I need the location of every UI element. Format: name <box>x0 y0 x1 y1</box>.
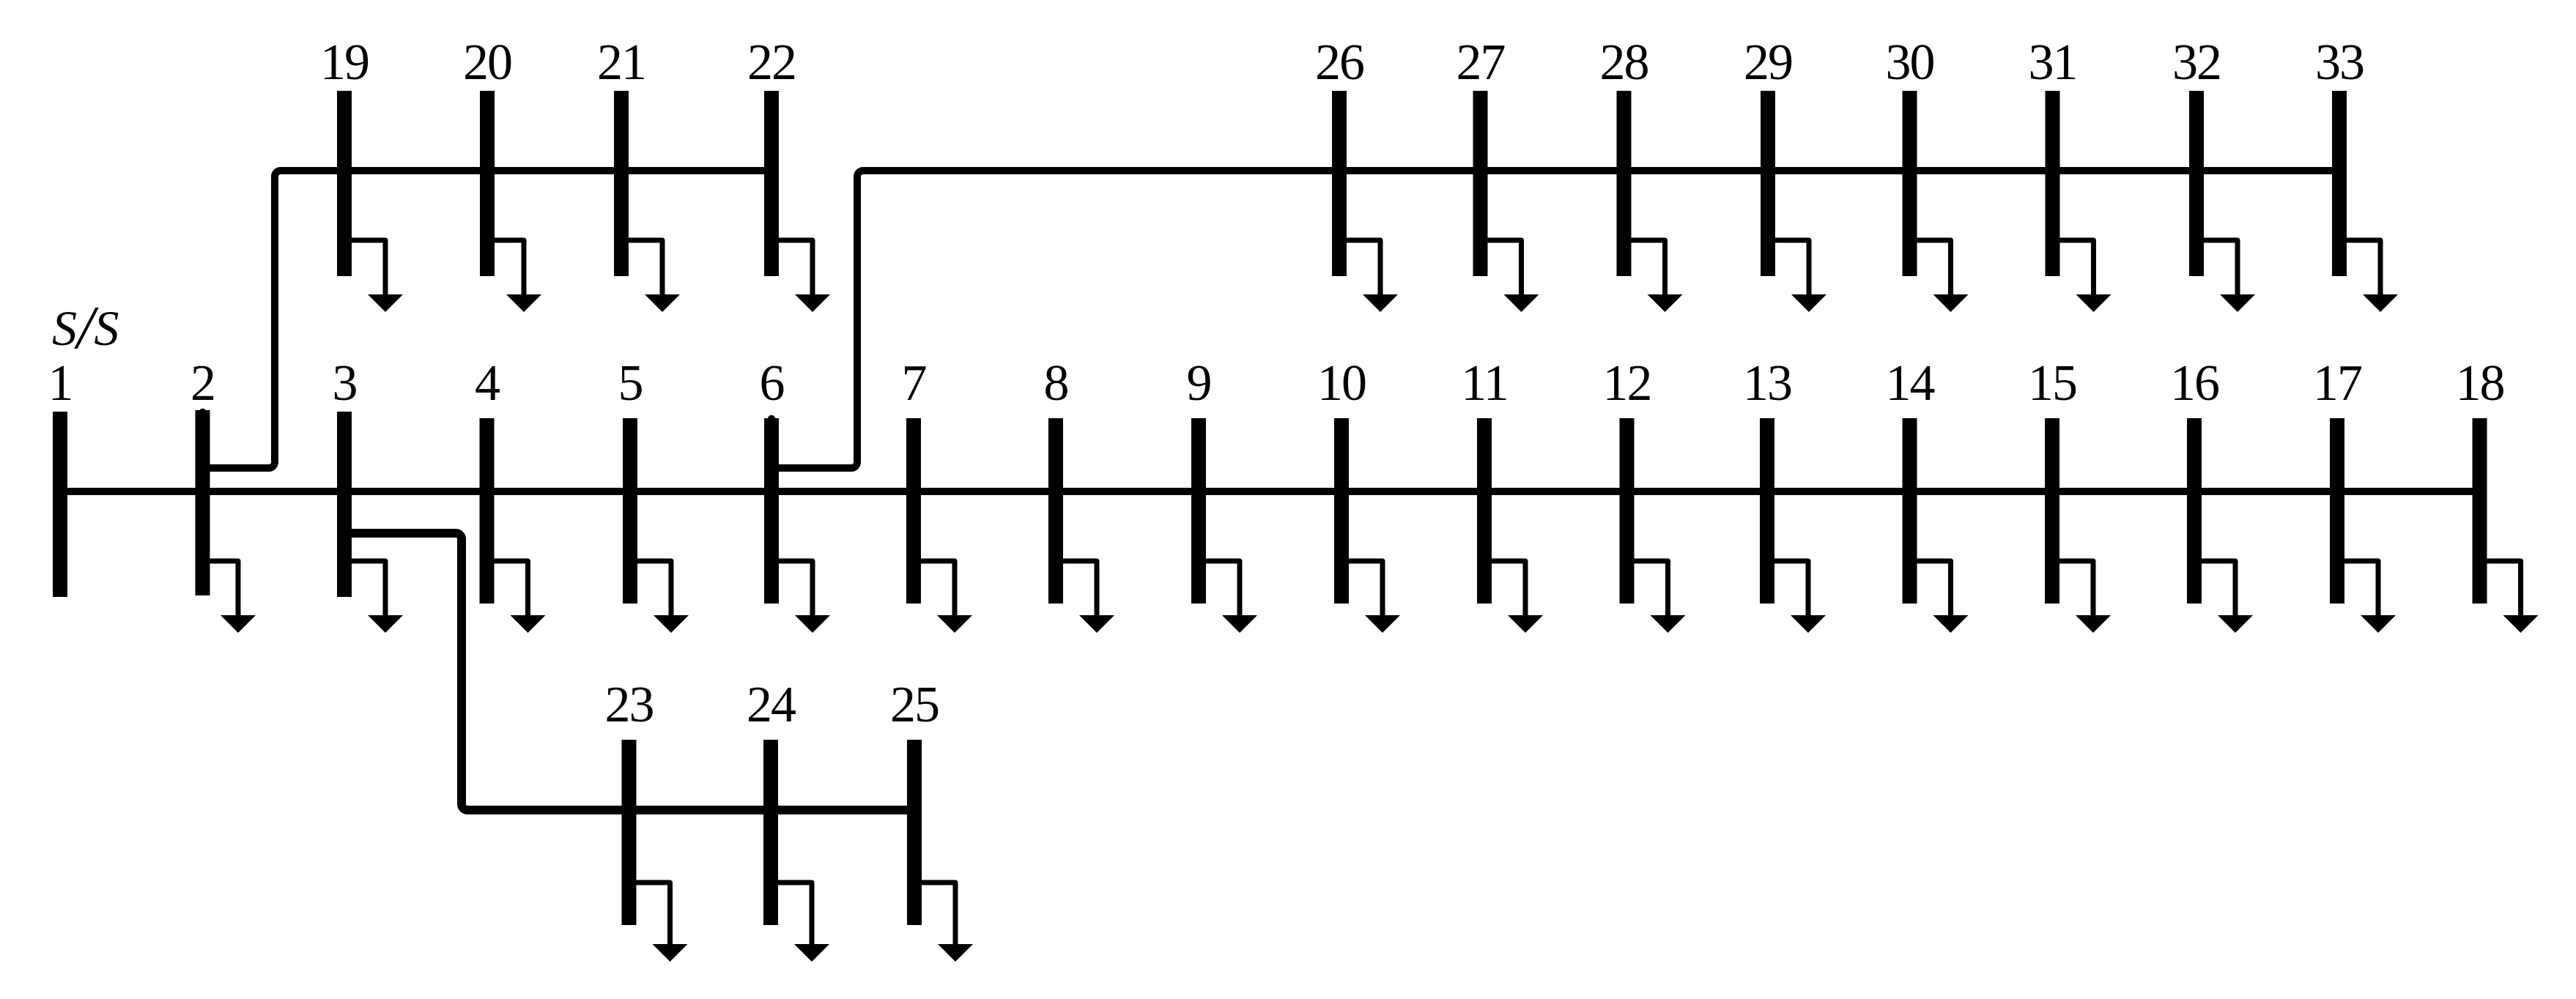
bus 14 bar <box>1903 418 1917 604</box>
load arrow at bus 11 <box>1491 561 1525 620</box>
svg-text:28: 28 <box>1600 34 1648 91</box>
svg-text:19: 19 <box>320 34 369 91</box>
bus 3 bar <box>337 412 352 597</box>
bus 8 bar <box>1048 418 1063 604</box>
bus 9 bar <box>1191 418 1206 604</box>
svg-text:21: 21 <box>597 34 645 91</box>
svg-text:17: 17 <box>2313 355 2361 412</box>
svg-text:14: 14 <box>1886 355 1935 412</box>
svg-text:10: 10 <box>1317 355 1366 412</box>
load arrow at bus 7 <box>920 561 955 620</box>
svg-text:9: 9 <box>1187 355 1211 412</box>
svg-text:6: 6 <box>760 355 784 412</box>
bus 32 bar <box>2189 91 2204 276</box>
svg-text:33: 33 <box>2315 34 2364 91</box>
svg-text:2: 2 <box>190 355 215 412</box>
svg-text:7: 7 <box>902 355 926 412</box>
svg-text:18: 18 <box>2456 355 2504 412</box>
load arrow at bus 6 <box>778 561 813 620</box>
load arrow at bus 10 <box>1348 561 1383 620</box>
bus 10 bar <box>1334 418 1349 604</box>
bus 25 bar <box>907 740 922 925</box>
svg-text:1: 1 <box>48 355 73 412</box>
load arrow at bus 28 <box>1631 240 1665 299</box>
bus 26 bar <box>1332 91 1347 276</box>
bus 24 bar <box>763 740 778 925</box>
svg-text:13: 13 <box>1743 355 1791 412</box>
bus 28 bar <box>1617 91 1632 276</box>
svg-text:15: 15 <box>2028 355 2076 412</box>
load arrow at bus 5 <box>637 561 671 620</box>
node dot at top of bus 6 <box>768 415 775 423</box>
bus 15 bar <box>2045 418 2059 604</box>
bus 27 bar <box>1473 91 1488 276</box>
wire: branch from bus 2 riser and lateral line buses 19-22 <box>203 171 772 468</box>
load arrow at bus 19 <box>351 240 385 299</box>
bus 17 bar <box>2330 418 2344 604</box>
svg-text:20: 20 <box>463 34 511 91</box>
node dot at top of bus 2 <box>199 409 206 416</box>
load arrow at bus 30 <box>1917 240 1951 299</box>
wire: branch from bus 3 riser and lateral line buses 23-25 <box>344 533 914 810</box>
svg-text:8: 8 <box>1044 355 1068 412</box>
load arrow at bus 24 <box>777 883 812 948</box>
bus 23 bar <box>622 740 637 925</box>
svg-text:22: 22 <box>747 34 796 91</box>
svg-text:4: 4 <box>475 355 500 412</box>
bus 22 bar <box>764 91 779 276</box>
load arrow at bus 22 <box>778 240 813 299</box>
svg-text:3: 3 <box>333 355 357 412</box>
load arrow at bus 25 <box>921 883 955 948</box>
load arrow at bus 29 <box>1774 240 1809 299</box>
bus 33 bar <box>2332 91 2347 276</box>
svg-text:26: 26 <box>1315 34 1363 91</box>
load arrow at bus 14 <box>1917 561 1951 620</box>
svg-text:27: 27 <box>1457 34 1505 91</box>
bus 4 bar <box>480 418 495 604</box>
svg-text:29: 29 <box>1744 34 1792 91</box>
bus 7 bar <box>906 418 921 604</box>
load arrow at bus 21 <box>628 240 662 299</box>
bus 13 bar <box>1760 418 1774 604</box>
bus 1 bar <box>53 412 67 597</box>
bus 11 bar <box>1477 418 1492 604</box>
bus 12 bar <box>1620 418 1635 604</box>
load arrow at bus 12 <box>1634 561 1668 620</box>
svg-text:31: 31 <box>2029 34 2077 91</box>
bus 31 bar <box>2046 91 2060 276</box>
svg-text:16: 16 <box>2170 355 2218 412</box>
wire: main feeder trunk line buses 1-18 <box>60 488 2480 495</box>
bus 21 bar <box>614 91 629 276</box>
svg-text:5: 5 <box>618 355 643 412</box>
load arrow at bus 17 <box>2344 561 2378 620</box>
load arrow at bus 33 <box>2346 240 2380 299</box>
bus 20 bar <box>480 91 495 276</box>
load arrow at bus 4 <box>494 561 528 620</box>
bus 6 bar <box>764 418 779 604</box>
load arrow at bus 16 <box>2201 561 2235 620</box>
bus 30 bar <box>1903 91 1917 276</box>
load arrow at bus 13 <box>1774 561 1808 620</box>
bus 29 bar <box>1761 91 1775 276</box>
load arrow at bus 23 <box>636 883 670 948</box>
load arrow at bus 31 <box>2059 240 2094 299</box>
load arrow at bus 2 <box>210 561 239 620</box>
svg-text:12: 12 <box>1603 355 1651 412</box>
svg-text:S/S: S/S <box>52 294 119 362</box>
svg-text:32: 32 <box>2172 34 2221 91</box>
load arrow at bus 20 <box>494 240 524 299</box>
svg-text:23: 23 <box>605 677 654 733</box>
load arrow at bus 18 <box>2487 561 2521 620</box>
load arrow at bus 32 <box>2203 240 2238 299</box>
load arrow at bus 9 <box>1205 561 1240 620</box>
svg-text:30: 30 <box>1886 34 1934 91</box>
svg-text:11: 11 <box>1461 355 1507 412</box>
load arrow at bus 27 <box>1487 240 1522 299</box>
bus 5 bar <box>623 418 637 604</box>
load arrow at bus 3 <box>351 561 385 620</box>
bus 18 bar <box>2473 418 2487 604</box>
bus 16 bar <box>2187 418 2202 604</box>
wire: branch from bus 6 riser and lateral line buses 26-33 <box>771 171 2339 468</box>
load arrow at bus 15 <box>2059 561 2093 620</box>
load arrow at bus 8 <box>1062 561 1097 620</box>
svg-text:25: 25 <box>890 677 939 733</box>
bus 19 bar <box>337 91 352 276</box>
bus 2 bar <box>196 410 210 595</box>
svg-text:24: 24 <box>747 677 796 733</box>
load arrow at bus 26 <box>1346 240 1380 299</box>
